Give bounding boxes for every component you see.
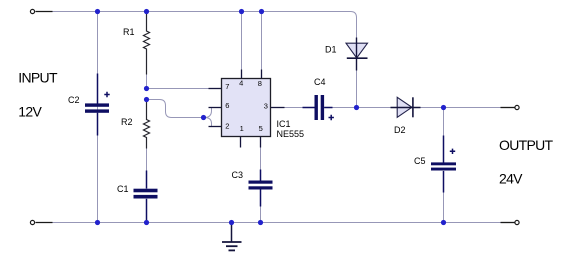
resistor R2 [144, 100, 150, 149]
svg-text:5: 5 [259, 124, 263, 133]
node dot top rail x241 [239, 9, 244, 14]
capacitor C4 [303, 95, 334, 120]
wire node A to pin 7 [147, 88, 222, 90]
svg-text:6: 6 [225, 101, 229, 110]
svg-text:7: 7 [225, 82, 229, 91]
node B dot [144, 97, 149, 102]
svg-text:OUTPUT: OUTPUT [499, 137, 554, 153]
svg-text:IC1: IC1 [277, 119, 291, 129]
capacitor C3 [249, 170, 273, 207]
node A dot [144, 86, 149, 91]
wire node B to node C [147, 100, 204, 118]
wire C5 branch [443, 108, 445, 223]
wire pin 8 to top rail [261, 12, 263, 70]
svg-text:4: 4 [239, 79, 243, 88]
svg-text:D2: D2 [394, 125, 406, 135]
wire node C to pin 6 [204, 108, 222, 118]
wire R2 to C1 [146, 149, 148, 171]
wire R1 lower to node A [146, 75, 148, 89]
input terminal bottom [36, 222, 53, 224]
wire pin 3 net [285, 107, 503, 109]
wire D1 to output node [356, 71, 358, 108]
node dot top rail x97 [95, 9, 100, 14]
svg-text:D1: D1 [325, 45, 337, 55]
svg-text:INPUT: INPUT [18, 69, 58, 85]
svg-text:8: 8 [258, 79, 262, 88]
diode D2 [391, 97, 421, 117]
wire pin 4 to top rail [241, 12, 243, 70]
wire C2 branch [97, 12, 99, 223]
svg-text:R1: R1 [123, 27, 135, 37]
node dot bottom C5 [441, 220, 446, 225]
diode D1 [346, 38, 368, 71]
svg-text:1: 1 [240, 124, 244, 133]
output terminal top [501, 107, 515, 109]
svg-text:C2: C2 [68, 95, 80, 105]
node C dot [201, 115, 206, 120]
svg-text:R2: R2 [121, 117, 133, 127]
capacitor C1 [134, 171, 158, 223]
output terminal bottom [501, 222, 515, 224]
node dot bottom x260 [258, 220, 263, 225]
node dot top rail x261 [259, 9, 264, 14]
wire C3 to bottom rail [260, 207, 262, 223]
node dot bottom x146 [144, 220, 149, 225]
wire bottom rail [36, 222, 503, 224]
svg-text:C3: C3 [232, 170, 244, 180]
wire node C to pin 2 [204, 118, 222, 127]
input terminal top [36, 11, 53, 13]
node dot C5 top [441, 105, 446, 110]
svg-text:3: 3 [264, 101, 268, 110]
node dot D1 output [354, 105, 359, 110]
ground [222, 225, 242, 251]
wire top rail [36, 12, 357, 38]
node dot bottom ground [229, 220, 234, 225]
svg-text:C1: C1 [117, 184, 129, 194]
capacitor C5 [431, 136, 456, 193]
wire pin 5 to C3 [260, 147, 262, 170]
svg-text:C5: C5 [414, 156, 426, 166]
svg-text:12V: 12V [18, 104, 42, 120]
resistor R1 [144, 13, 150, 75]
node dot bottom x97 [95, 220, 100, 225]
svg-text:C4: C4 [314, 77, 326, 87]
svg-text:24V: 24V [499, 171, 523, 187]
IC1 NE555 pin stubs [209, 70, 285, 148]
IC1 NE555 body [222, 79, 271, 137]
svg-text:NE555: NE555 [277, 129, 305, 139]
svg-text:2: 2 [225, 121, 229, 130]
capacitor C2 [85, 74, 110, 136]
node dot top rail x146 [144, 9, 149, 14]
